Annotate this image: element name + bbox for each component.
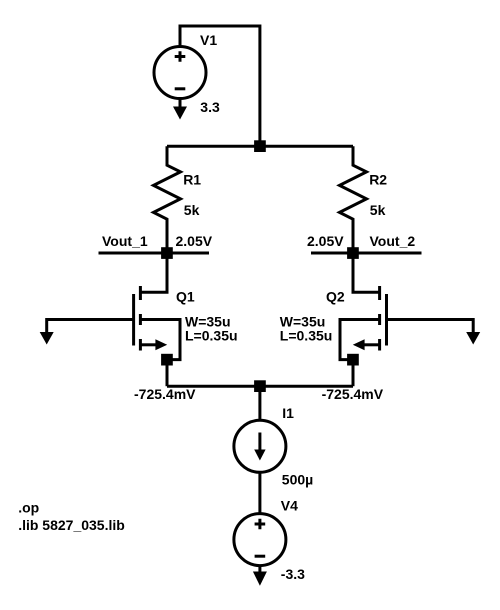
tail rail wire: [167, 385, 353, 388]
transistor Q2 gate bar: [385, 294, 388, 346]
svg-text:I1: I1: [282, 405, 294, 421]
svg-text:-3.3: -3.3: [281, 566, 305, 582]
top rail wire: [167, 145, 353, 148]
svg-text:Vout_1: Vout_1: [102, 233, 148, 249]
node Vout_2 junction: [347, 247, 359, 259]
Vout_1 rail: [99, 252, 210, 255]
svg-text:-725.4mV: -725.4mV: [134, 386, 196, 402]
wire Q1 source node to tail rail: [166, 360, 169, 387]
svg-text:R2: R2: [369, 171, 387, 187]
wire Q2 source node to tail rail: [352, 360, 355, 387]
Q2 source arrow: [353, 339, 365, 350]
V4 minus sign: [255, 555, 266, 558]
right input arrow: [466, 332, 480, 345]
svg-text:3.3: 3.3: [200, 99, 220, 115]
wire Vout_1 to Q1 drain: [140, 253, 167, 292]
svg-text:Q2: Q2: [326, 288, 345, 304]
V1 plus sign: [175, 51, 186, 62]
Q2 source lead: [364, 343, 380, 346]
Q2 channel segments: [378, 286, 381, 351]
V4 plus sign: [255, 519, 266, 530]
svg-text:L=0.35u: L=0.35u: [185, 328, 238, 344]
I1 arrow head: [254, 450, 265, 461]
node junction at top rail: [254, 140, 266, 152]
svg-text:V4: V4: [281, 498, 298, 514]
current source I1: [234, 420, 286, 472]
svg-text:5k: 5k: [184, 202, 200, 218]
svg-text:.op: .op: [18, 499, 39, 515]
ground arrow below V1: [173, 107, 187, 120]
node Q2 source junction: [347, 354, 359, 366]
Q1 channel segments: [139, 286, 142, 351]
I1 arrow stem: [258, 433, 261, 452]
wire Vout_2 to Q2 drain: [353, 253, 380, 292]
svg-text:L=0.35u: L=0.35u: [280, 328, 333, 344]
Vout_2 rail: [311, 252, 422, 255]
wire Q2 gate lead: [387, 320, 474, 334]
svg-text:.lib 5827_035.lib: .lib 5827_035.lib: [18, 517, 125, 533]
node Q1 source junction: [161, 354, 173, 366]
ground arrow below V4: [253, 572, 267, 586]
svg-text:5k: 5k: [370, 202, 386, 218]
node tail junction: [254, 380, 266, 392]
svg-text:-725.4mV: -725.4mV: [322, 386, 384, 402]
Q1 body lead wire: [140, 320, 180, 360]
wire V1 top to center column: [180, 26, 260, 146]
Q2 body lead wire: [340, 320, 380, 360]
svg-text:2.05V: 2.05V: [307, 233, 344, 249]
V1 minus sign: [175, 87, 186, 90]
node Vout_1 junction: [161, 247, 173, 259]
wire Q1 gate lead: [47, 320, 134, 334]
wire I1 to V4: [258, 472, 261, 513]
voltage source V4: [234, 514, 286, 566]
svg-text:Vout_2: Vout_2: [370, 233, 416, 249]
resistor R2: [340, 146, 367, 253]
wire tail to I1: [258, 386, 261, 420]
Q1 source arrow: [155, 339, 167, 350]
left input arrow: [40, 332, 54, 345]
Q1 source lead: [140, 343, 156, 346]
svg-text:V1: V1: [200, 32, 217, 48]
svg-text:R1: R1: [183, 171, 201, 187]
transistor Q1 gate bar: [132, 294, 135, 346]
svg-text:2.05V: 2.05V: [176, 233, 213, 249]
svg-text:500µ: 500µ: [282, 472, 313, 488]
resistor R1: [154, 146, 181, 253]
V4 bottom stub: [258, 566, 261, 572]
svg-text:Q1: Q1: [176, 288, 195, 304]
voltage source V1: [154, 47, 206, 99]
wire V1 bottom stub: [179, 99, 182, 109]
